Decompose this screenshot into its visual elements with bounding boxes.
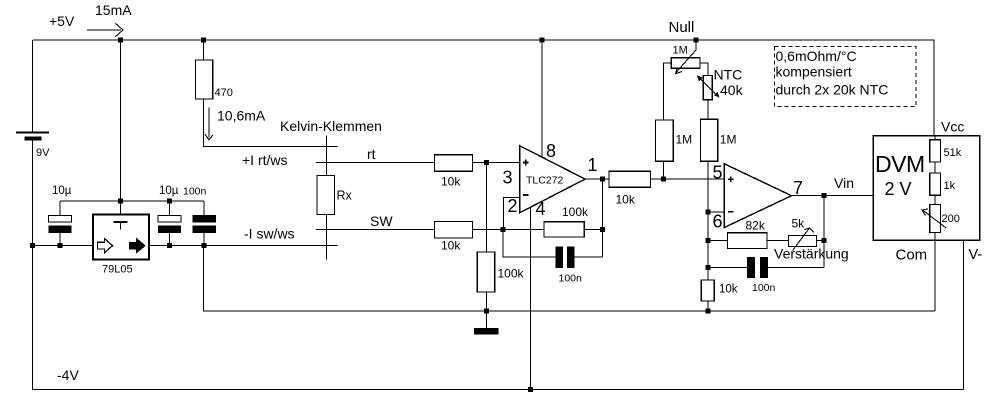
node bus / C2 [167,243,172,248]
node feedback right [600,227,605,232]
svg-text:kompensiert: kompensiert [776,64,852,80]
resistor R9 82k [708,219,788,249]
wire pin8 to +5V [541,40,543,157]
thermistor NTC 40k [697,67,744,100]
node bus / C1 [58,243,63,248]
svg-text:2: 2 [508,196,518,216]
wire output node vertical [601,179,603,257]
svg-text:4: 4 [536,199,546,219]
wire +5V top rail [33,40,934,136]
svg-text:DVM: DVM [875,151,925,177]
resistor R11 51k [930,136,962,163]
wire 10k to op2 +in [651,178,725,180]
capacitor C5 100n [708,257,824,294]
wire 100k to output node [584,229,602,231]
svg-text:10k: 10k [719,284,738,296]
svg-text:100n: 100n [183,186,207,198]
wire -4V bus (79L05 input row) [33,245,338,247]
op-amp U1B TLC272 [713,163,804,232]
svg-text:8: 8 [546,141,556,161]
regulator U2 79L05 [93,215,149,276]
svg-text:Vcc: Vcc [941,119,964,135]
resistor R4 10k [434,221,472,252]
node 100n left [706,265,711,270]
potentiometer P1 1M [663,40,708,120]
resistor R6 10k [609,171,651,206]
node pin6 [706,210,711,215]
resistor R12 1k [930,162,956,195]
resistor Rx [317,176,353,215]
potentiometer P2 5k [789,217,825,251]
svg-text:1k: 1k [944,180,956,192]
resistor R1 470 [196,40,233,99]
potentiometer P3 200 [922,195,960,240]
wire left rail to battery [32,40,34,132]
svg-text:470: 470 [215,87,233,99]
node top rail / left cap drop [118,38,123,43]
node pin5 / 1M [661,177,666,182]
ground [474,311,499,334]
wire Kelvin probe vertical [325,136,327,260]
wire output pin1 [585,178,609,180]
capacitor C1 10u [49,185,72,246]
resistor R8 1M [700,100,736,162]
node -in [500,227,505,232]
node output pin1 [600,177,605,182]
svg-text:5k: 5k [792,217,806,231]
resistor R3 100k [477,252,524,292]
svg-text:10,6mA: 10,6mA [217,108,266,124]
svg-text:100k: 100k [498,267,525,281]
svg-text:1M: 1M [676,133,693,147]
wire gnd rail [204,246,936,312]
DVM box [873,136,980,241]
wire Com to gnd rail [934,240,936,311]
svg-text:40k: 40k [720,82,744,98]
dashed note box [775,47,917,107]
svg-text:Com: Com [896,247,928,264]
wire -in pin2 [504,197,520,229]
resistor R5 100k feedback [544,205,589,237]
wire pin6 [708,211,724,213]
wire capacitor top bus [60,200,204,202]
svg-text:Vin: Vin [834,175,854,191]
node top rail / pin8 [540,38,545,43]
resistor R2 10k [434,155,472,189]
svg-text:1M: 1M [720,133,737,147]
node gnd rail / 100k [484,309,489,314]
node top rail / Null [694,38,699,43]
node Vin [822,193,827,198]
svg-text:82k: 82k [746,219,766,233]
battery BT1 9V [16,133,50,160]
resistor R10 10k [701,267,738,311]
wire SW sense [316,229,434,231]
wire 470 to Kelvin +I [204,99,338,146]
capacitor C2 10u [158,185,181,246]
svg-text:Verstärkung: Verstärkung [774,246,849,262]
svg-text:SW: SW [370,213,393,229]
wire 1M to pin6 node [707,161,709,267]
node caps top / C2 [167,199,172,204]
svg-text:7: 7 [793,178,803,198]
svg-text:100n: 100n [752,282,776,294]
arrow 10,6mA current [205,108,213,140]
wire +5V drop to 79L05 gnd [120,40,122,222]
svg-text:1: 1 [588,155,598,175]
node 82k left [706,238,711,243]
wire 10k to op-amp +in [473,161,520,163]
wire V- vertical [963,240,965,390]
node bus / C3 [202,243,207,248]
wire node to 100k [485,162,487,252]
resistor R7 1M [656,120,693,179]
svg-text:10k: 10k [441,175,461,189]
node bottom rail / pin4 [528,387,533,392]
node top rail / 470 [201,38,206,43]
svg-text:3: 3 [503,168,513,188]
svg-text:79L05: 79L05 [102,264,133,276]
wire rt sense [316,161,434,163]
svg-text:9V: 9V [36,147,50,159]
svg-text:-I sw/ws: -I sw/ws [244,226,295,242]
svg-text:1M: 1M [673,45,688,57]
wire op2 output to DVM [792,195,875,197]
svg-text:2 V: 2 V [885,179,912,199]
wire pin4 to -4V [530,206,532,390]
wire 100k to gnd rail [485,292,487,311]
svg-text:-4V: -4V [57,367,79,383]
node rt / opamp [484,160,489,165]
svg-text:durch 2x 20k NTC: durch 2x 20k NTC [776,82,889,98]
svg-text:TLC272: TLC272 [526,175,564,187]
svg-text:200: 200 [942,213,960,225]
svg-text:10k: 10k [616,193,636,207]
capacitor C3 100n [183,186,216,246]
node bus / left rail [30,243,35,248]
svg-text:10k: 10k [441,239,461,253]
svg-text:Rx: Rx [337,189,353,203]
svg-text:V-: V- [969,247,983,263]
node gnd rail / 10k [706,309,711,314]
arrow 15mA current [87,23,123,36]
svg-text:100n: 100n [559,273,583,285]
svg-text:100k: 100k [562,205,589,219]
wire -4V bottom rail [33,388,964,390]
svg-text:6: 6 [713,212,723,232]
node 5k right [822,238,827,243]
svg-text:10µ: 10µ [159,185,179,197]
svg-text:15mA: 15mA [95,2,132,18]
node caps top / +5V drop [118,199,123,204]
svg-text:+5V: +5V [49,13,75,29]
svg-text:51k: 51k [944,147,962,159]
wire output to feedback [823,196,825,268]
svg-text:Kelvin-Klemmen: Kelvin-Klemmen [280,118,382,134]
svg-text:+I rt/ws: +I rt/ws [242,152,288,168]
svg-text:0,6mOhm/°C: 0,6mOhm/°C [776,48,857,64]
svg-text:5: 5 [713,163,723,183]
svg-text:10µ: 10µ [52,185,72,197]
svg-text:NTC: NTC [714,67,743,83]
wire left rail battery- to bottom [32,141,34,390]
op-amp U1 TLC272 [503,141,598,219]
capacitor C4 100n feedback [503,230,602,285]
svg-text:rt: rt [367,146,376,162]
wire SW 10k to -in node [473,229,544,231]
svg-text:Null: Null [669,19,695,36]
